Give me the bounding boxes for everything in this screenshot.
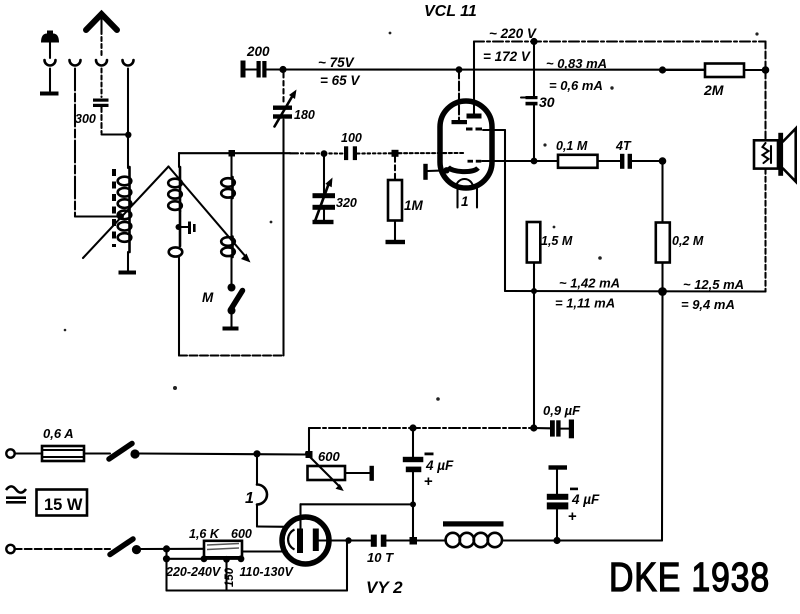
svg-text:1,6 K: 1,6 K (189, 527, 220, 541)
wire selector to VY2 (242, 550, 287, 552)
node R2M right (762, 66, 770, 74)
wire box left edge (178, 258, 180, 356)
svg-text:= 1,11 mA: = 1,11 mA (555, 296, 615, 311)
svg-text:~ 220 V: ~ 220 V (489, 26, 537, 41)
wire antenna to C300 (100, 69, 102, 98)
wire pot out (345, 472, 370, 474)
node tap mid (223, 556, 230, 563)
wire R02M to bus (661, 263, 663, 292)
svg-text:30: 30 (539, 94, 555, 110)
svg-text:1: 1 (245, 490, 254, 507)
fuse 0,6A (42, 446, 84, 461)
node C4T right (659, 157, 667, 165)
wire speaker lower (764, 169, 766, 292)
svg-text:180: 180 (294, 108, 315, 122)
resistor R 1,6K selector (204, 541, 242, 558)
node grid2 (531, 158, 538, 165)
node L2 tap (176, 224, 182, 230)
wire HT line 75V (267, 68, 706, 70)
svg-text:+: + (568, 508, 577, 525)
node tap 220V (201, 555, 208, 562)
svg-text:10 T: 10 T (367, 550, 394, 565)
wire switch to pot node (140, 454, 306, 455)
variometer arrow right (169, 167, 251, 263)
cathode terminal stub (423, 164, 449, 180)
svg-text:+: + (424, 473, 433, 490)
wire C30 to grid2 node (533, 105, 535, 161)
wire stub to C200 (246, 68, 257, 70)
wire C4T to node (632, 160, 663, 162)
wire R1M branch (394, 157, 396, 180)
resistor R 2M (705, 64, 744, 78)
wire C320 branch (323, 154, 325, 193)
wire node to choke (417, 539, 446, 541)
svg-text:= 65 V: = 65 V (320, 73, 360, 88)
svg-text:100: 100 (341, 131, 362, 145)
wire antenna cap branch (282, 73, 284, 103)
antenna symbol (86, 14, 117, 30)
wire grid leak mid (534, 160, 558, 162)
wire selector return left (165, 549, 167, 591)
wire switch to selector (141, 548, 204, 550)
wire C10T to node (386, 539, 409, 541)
wire tap mid down (225, 559, 227, 590)
earth terminal symbol (41, 31, 59, 59)
node heater drop (253, 450, 260, 457)
tube VCL11 envelope (440, 101, 492, 188)
wire R02M top (661, 161, 663, 223)
wire heater hop (257, 454, 287, 527)
node bus R02M (658, 287, 667, 296)
socket cup 1 (45, 60, 56, 66)
node B+ C4uF (409, 424, 416, 431)
wire fuse to switch (84, 452, 110, 454)
wire socket2 down (74, 69, 76, 217)
tap stub L2 (179, 222, 196, 235)
wire switch to ground (230, 314, 232, 327)
svg-text:4 µF: 4 µF (571, 492, 600, 507)
wire output drop right (661, 292, 664, 541)
ground bar M (223, 327, 239, 331)
svg-text:4T: 4T (615, 139, 632, 153)
node R2M left (659, 66, 666, 73)
node B+ right (530, 424, 537, 431)
capacitor C 100 (344, 146, 357, 160)
node antenna junction (125, 132, 131, 138)
wire socket4 down (127, 69, 129, 136)
wire C300 to node (100, 107, 102, 133)
node C4uF2 (553, 537, 560, 544)
potentiometer R 600 (306, 453, 345, 491)
svg-text:110-130V: 110-130V (240, 565, 295, 579)
node selector left (163, 545, 170, 552)
socket cup 4 (123, 60, 134, 66)
svg-text:600: 600 (318, 449, 340, 464)
svg-text:0,9 µF: 0,9 µF (543, 403, 581, 418)
svg-text:300: 300 (75, 112, 96, 126)
svg-text:0,1 M: 0,1 M (556, 139, 588, 153)
wire selector return up (346, 541, 348, 591)
wire B+ corner drop (308, 428, 310, 451)
svg-text:1M: 1M (404, 198, 424, 213)
capacitor C 10T (371, 535, 387, 547)
ground bar R1M (386, 240, 406, 244)
wire R to C4T (598, 160, 621, 162)
label minus C4uF1 (425, 453, 434, 456)
node L3 top (229, 150, 236, 157)
wire rectifier output (301, 503, 414, 505)
ground bar L1 (119, 271, 137, 275)
pin heater 2 (476, 188, 478, 208)
svg-text:15 W: 15 W (44, 496, 83, 514)
node bus R15M (531, 288, 537, 294)
wire earth stub (49, 69, 51, 92)
symbol AC-DC (6, 486, 26, 503)
wire L1 to ground (127, 252, 129, 271)
scan specks (64, 32, 759, 401)
node 220V (530, 38, 537, 45)
speaker LS (754, 129, 796, 182)
svg-text:DKE 1938: DKE 1938 (609, 554, 770, 600)
capacitor C 300 (93, 99, 109, 108)
wire cathode bus drop (504, 130, 506, 291)
terminal mains top (6, 449, 14, 457)
svg-text:150: 150 (224, 567, 236, 587)
anode plate tetrode (467, 114, 482, 119)
wire 220V top (474, 40, 766, 42)
svg-text:M: M (202, 290, 214, 305)
svg-text:1,5 M: 1,5 M (541, 234, 573, 248)
node anode1 (456, 66, 463, 73)
node filter square (410, 537, 418, 545)
capacitor C 180 variable (273, 90, 297, 127)
capacitor C 4T (620, 154, 632, 169)
svg-text:= 9,4 mA: = 9,4 mA (681, 297, 735, 312)
ground bar earth (40, 92, 59, 96)
resistor R 1M (388, 180, 402, 221)
coil L3 feedback (221, 156, 235, 257)
coil L1 antenna (118, 167, 132, 252)
svg-text:220-240V: 220-240V (165, 565, 222, 579)
svg-text:= 0,6 mA: = 0,6 mA (549, 78, 603, 93)
switch S1 (109, 444, 140, 460)
node tap L1 (117, 213, 124, 220)
node grid square (392, 150, 399, 157)
wire screen tap (483, 129, 505, 131)
wire L3 to switch (230, 257, 232, 284)
screen grid dashes (466, 128, 482, 131)
svg-text:VCL 11: VCL 11 (424, 3, 477, 20)
switch M (228, 284, 243, 315)
wire to C09 (534, 427, 550, 429)
capacitor C 4uF first (403, 457, 424, 472)
heater arc VY2 (288, 530, 294, 550)
wire antenna dashed (100, 30, 102, 58)
coil L2 detector (168, 153, 182, 257)
wire choke to corner (502, 539, 662, 541)
wire R2M row (663, 69, 706, 71)
choke L filter (443, 521, 504, 547)
svg-text:~ 1,42 mA: ~ 1,42 mA (559, 276, 620, 291)
wire C4uF1 down (412, 472, 414, 537)
node C200 right (279, 66, 286, 73)
capacitor C 200 (257, 61, 267, 78)
wire box right edge (282, 120, 284, 356)
wire bias drop mid (533, 291, 535, 428)
svg-text:4 µF: 4 µF (425, 458, 454, 473)
svg-text:0,2 M: 0,2 M (672, 234, 704, 248)
svg-text:200: 200 (246, 44, 270, 59)
svg-text:600: 600 (231, 527, 252, 541)
svg-text:1: 1 (461, 194, 469, 209)
wire node to coil L1 (127, 135, 129, 168)
wire C320 to ground (323, 210, 325, 220)
variometer arrow left (83, 167, 169, 259)
heater arc VCL11 (456, 179, 473, 187)
terminal stub C200 (241, 61, 246, 78)
wire box bottom edge (179, 354, 284, 356)
wire selector taps row (167, 558, 242, 560)
wire speaker upper (764, 42, 766, 141)
node heater return (345, 537, 351, 543)
ground bar C320 (313, 220, 334, 224)
box 15W (37, 490, 88, 516)
wire C4uF1 top (412, 428, 414, 457)
svg-text:0,6 A: 0,6 A (43, 426, 74, 441)
resistor R 1,5M (527, 222, 541, 263)
socket cup 3 (96, 60, 107, 66)
svg-text:2M: 2M (703, 82, 724, 98)
pin heater 1 (456, 188, 458, 208)
wire selector return bottom (167, 589, 348, 591)
wire anode2 drop (473, 42, 475, 115)
capacitor C 30 (521, 96, 538, 105)
svg-text:320: 320 (336, 196, 357, 210)
svg-text:VY 2: VY 2 (366, 578, 403, 597)
wire R2M right (744, 69, 766, 71)
wire VY2 anode top (299, 504, 301, 530)
svg-text:~ 12,5 mA: ~ 12,5 mA (683, 277, 744, 292)
grid dashes tetrode (468, 160, 482, 163)
tube VY2 envelope (282, 517, 329, 564)
resistor R 0,1M (558, 155, 598, 168)
wire tap horizontal (75, 215, 121, 217)
label minus C4uF2 (570, 488, 578, 491)
anode plate triode (452, 120, 468, 124)
terminal stub pot (370, 466, 374, 481)
wire B+ line (309, 427, 534, 429)
wire R15M to bus (533, 263, 535, 292)
anode bar VY2 (297, 529, 303, 554)
capacitor C 0,9uF (550, 420, 574, 439)
wire VY2 cathode out (319, 539, 371, 541)
cathode VCL11 (448, 167, 478, 172)
wire anode1 drop (458, 70, 460, 121)
capacitor C 320 variable (313, 178, 336, 223)
wire mains bottom left (15, 548, 110, 550)
core dashed L1 (112, 169, 116, 247)
wire screen feed upper (533, 42, 535, 97)
socket cup 2 (70, 60, 81, 66)
node tap 110V (238, 555, 245, 562)
terminal mains bottom (6, 545, 14, 553)
wire tuned line y153 (179, 152, 464, 155)
wire R1M to ground (394, 221, 396, 241)
node C320 branch (321, 150, 328, 157)
capacitor C 4uF second (547, 465, 569, 540)
resistor R 0,2M (656, 223, 670, 263)
svg-text:= 172 V: = 172 V (483, 49, 531, 64)
node pot square (306, 451, 313, 458)
node selector tap row left (163, 555, 170, 562)
node rectifier out (410, 501, 416, 507)
wire mains to fuse (15, 452, 42, 454)
cathode bar VY2 (313, 529, 319, 552)
wire cathode bus (505, 290, 766, 293)
svg-text:~ 75V: ~ 75V (318, 55, 355, 70)
wire grid2 out (482, 160, 534, 162)
switch S2 (110, 539, 141, 555)
svg-text:~ 0,83 mA: ~ 0,83 mA (546, 56, 607, 71)
